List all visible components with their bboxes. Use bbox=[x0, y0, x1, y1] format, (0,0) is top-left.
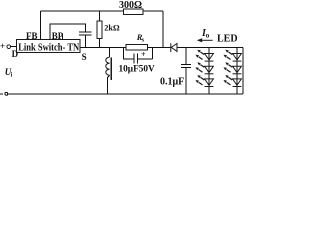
svg-text:LED: LED bbox=[217, 33, 238, 44]
svg-text:o: o bbox=[206, 32, 210, 40]
svg-text:S: S bbox=[82, 52, 87, 62]
svg-text:0.1μF: 0.1μF bbox=[160, 76, 184, 87]
svg-text:2kΩ: 2kΩ bbox=[104, 23, 120, 32]
svg-text:300Ω: 300Ω bbox=[119, 0, 142, 11]
svg-text:+: + bbox=[141, 50, 146, 59]
svg-text:Link Switch- TN: Link Switch- TN bbox=[18, 41, 79, 53]
svg-text:FB: FB bbox=[26, 31, 38, 41]
svg-text:10μF50V: 10μF50V bbox=[119, 65, 156, 75]
svg-text:D: D bbox=[12, 49, 19, 59]
svg-text:+: + bbox=[0, 41, 5, 51]
svg-text:BP: BP bbox=[52, 31, 64, 41]
